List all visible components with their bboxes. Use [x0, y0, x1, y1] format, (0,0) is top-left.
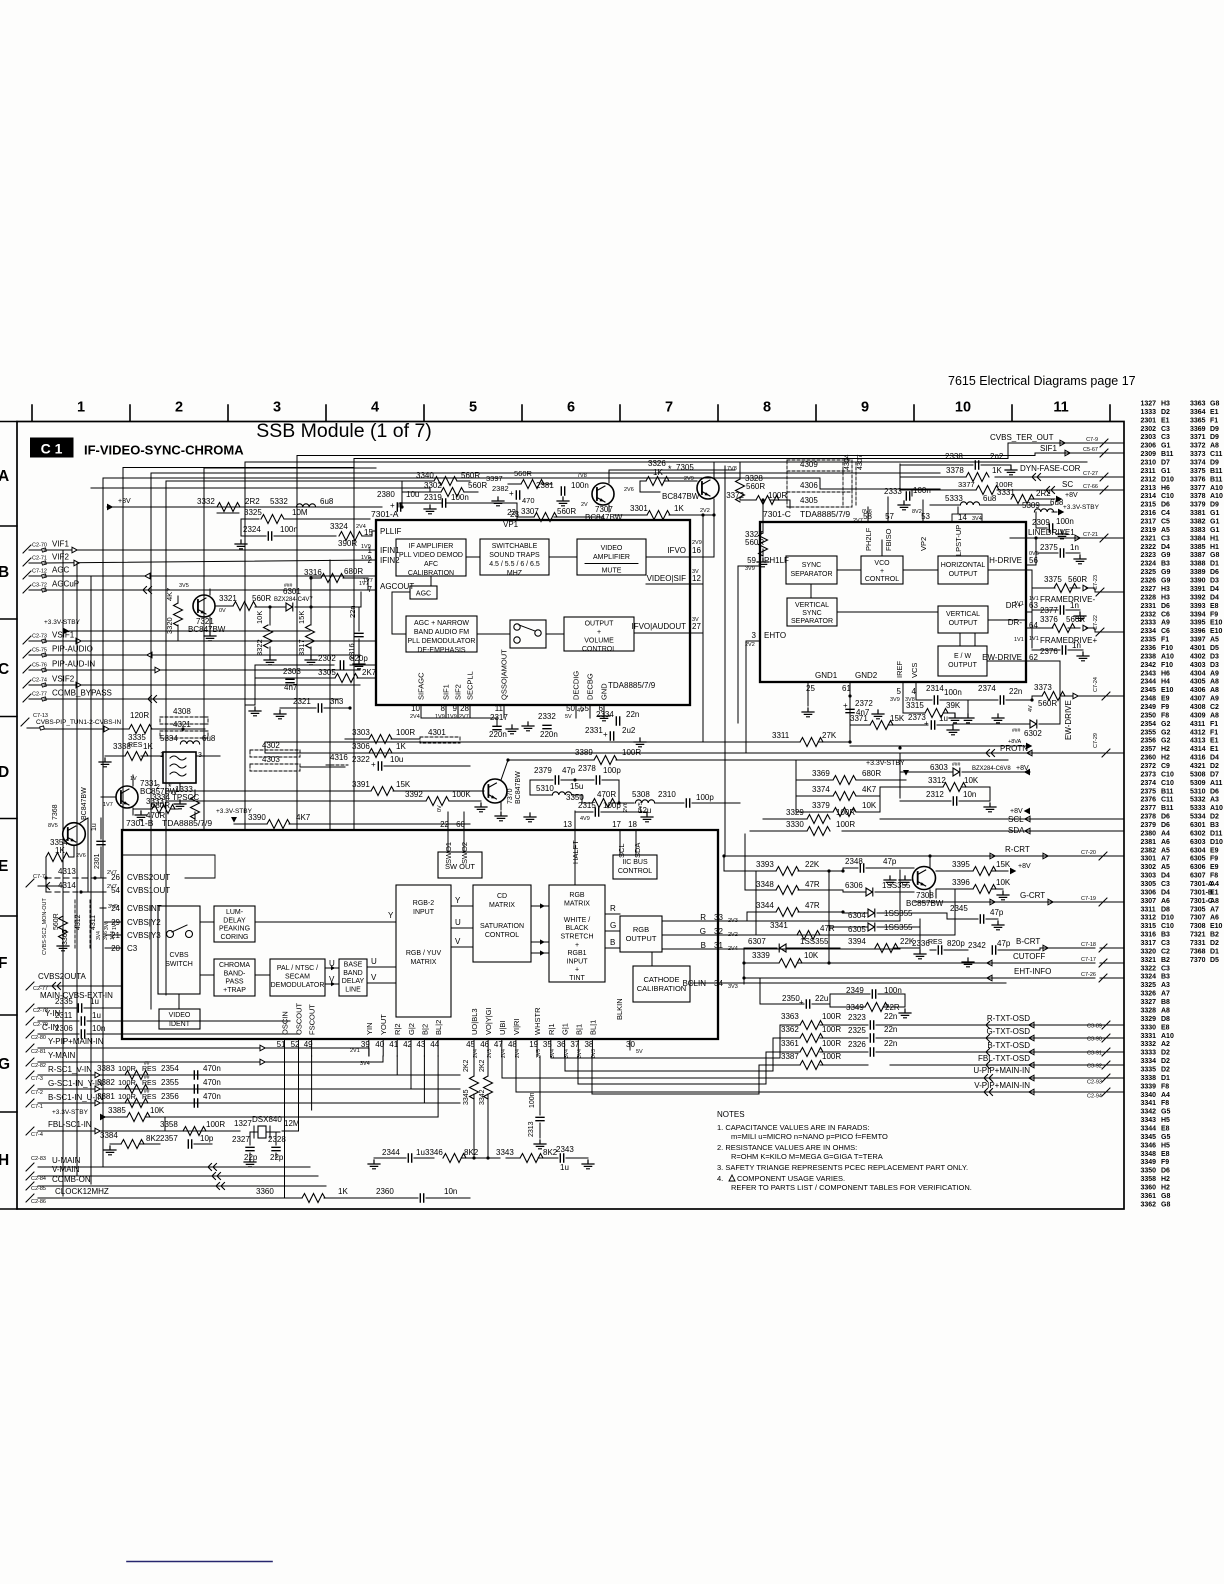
svg-text:m=MILI u=MICRO n=NANO p: m=MILI u=MICRO n=NANO p=PICO f=FEMTO — [731, 1132, 888, 1141]
svg-text:SECAM: SECAM — [285, 974, 310, 981]
svg-text:BC857BW: BC857BW — [906, 899, 944, 908]
capacitor 2372 4n7 — [846, 709, 854, 712]
svg-text:100n: 100n — [1056, 517, 1074, 526]
block output volume control — [564, 617, 634, 651]
svg-text:###: ### — [952, 762, 961, 768]
svg-text:2V6: 2V6 — [76, 853, 86, 859]
svg-text:2V7: 2V7 — [459, 714, 469, 720]
svg-text:2311: 2311 — [55, 1011, 73, 1020]
svg-text:C7-3: C7-3 — [31, 1076, 43, 1082]
svg-text:BLACK: BLACK — [566, 925, 589, 932]
svg-text:C7-7: C7-7 — [33, 874, 45, 880]
svg-text:4312: 4312 — [75, 914, 82, 930]
svg-text:+TRAP: +TRAP — [223, 987, 246, 994]
svg-text:B11: B11 — [1210, 476, 1223, 483]
wire EW-DRIVE pin to bus — [1026, 660, 1060, 662]
svg-text:3393: 3393 — [1190, 603, 1206, 610]
svg-text:3V5: 3V5 — [179, 583, 189, 589]
svg-text:2380: 2380 — [1141, 830, 1157, 837]
svg-text:CHROMA: CHROMA — [219, 962, 250, 969]
bus vertical x245 — [244, 462, 246, 830]
svg-text:C3: C3 — [127, 944, 138, 953]
svg-text:FRAMEDRIVE+: FRAMEDRIVE+ — [1040, 636, 1097, 645]
svg-text:DEMODULATOR: DEMODULATOR — [271, 982, 325, 989]
svg-text:C7-1: C7-1 — [31, 1104, 43, 1110]
svg-text:64: 64 — [1029, 621, 1038, 630]
svg-text:A9: A9 — [1161, 620, 1170, 627]
svg-text:6303: 6303 — [1190, 839, 1206, 846]
svg-text:3V4: 3V4 — [96, 931, 102, 940]
svg-text:DECDIG: DECDIG — [572, 671, 581, 700]
svg-text:54: 54 — [111, 886, 120, 895]
svg-text:B-CRT: B-CRT — [1016, 937, 1040, 946]
transistor 7331 BC857BW — [116, 786, 138, 808]
svg-text:2310: 2310 — [1141, 460, 1157, 467]
wire VSIF2 — [44, 684, 360, 686]
svg-text:1u: 1u — [939, 714, 948, 723]
svg-text:2. RESISTANCE VALUES ARE IN: 2. RESISTANCE VALUES ARE IN OHMS: — [717, 1143, 857, 1152]
svg-text:560R: 560R — [1038, 699, 1057, 708]
svg-text:2314: 2314 — [926, 684, 944, 693]
svg-text:8: 8 — [763, 400, 771, 416]
svg-text:6306: 6306 — [845, 881, 863, 890]
svg-text:COMPONENT USAGE VARIES.: COMPONENT USAGE VARIES. — [737, 1174, 845, 1183]
svg-text:59: 59 — [747, 556, 756, 565]
svg-text:2313: 2313 — [528, 1121, 535, 1137]
svg-text:2319: 2319 — [1141, 527, 1157, 534]
svg-text:D8: D8 — [1161, 906, 1170, 913]
svg-text:C3-72: C3-72 — [32, 583, 47, 589]
svg-text:27K: 27K — [822, 731, 837, 740]
svg-text:100R: 100R — [822, 1052, 841, 1061]
svg-text:CUTOFF: CUTOFF — [1013, 952, 1045, 961]
wire CVBS-PIP to 120R — [44, 728, 122, 730]
svg-text:GND2: GND2 — [855, 671, 878, 680]
svg-text:RGB / YUV: RGB / YUV — [406, 950, 442, 957]
svg-text:560R: 560R — [461, 471, 480, 480]
svg-text:SWITCH: SWITCH — [165, 961, 193, 968]
svg-text:3322: 3322 — [1141, 965, 1157, 972]
svg-text:3385: 3385 — [1190, 544, 1206, 551]
svg-text:3390: 3390 — [1190, 578, 1206, 585]
svg-text:EW-DRIVE: EW-DRIVE — [982, 653, 1022, 662]
svg-text:2: 2 — [175, 400, 183, 416]
svg-text:H6: H6 — [1161, 485, 1170, 492]
svg-text:560R: 560R — [1068, 575, 1087, 584]
svg-text:CONTROL: CONTROL — [618, 868, 652, 875]
svg-text:+: + — [924, 719, 929, 728]
svg-text:AFC: AFC — [424, 561, 438, 568]
svg-text:B|2: B|2 — [420, 1024, 429, 1035]
svg-text:7370: 7370 — [1190, 957, 1206, 964]
svg-text:1V1: 1V1 — [1014, 601, 1024, 607]
svg-text:CVBS|Y2: CVBS|Y2 — [127, 918, 161, 927]
svg-text:A3: A3 — [1161, 982, 1170, 989]
svg-text:3374: 3374 — [812, 785, 830, 794]
svg-text:2377: 2377 — [1141, 805, 1157, 812]
svg-text:10K: 10K — [150, 1106, 165, 1115]
svg-text:3326: 3326 — [648, 459, 666, 468]
wire PIP-AUDIO — [44, 654, 360, 656]
svg-text:16: 16 — [692, 546, 701, 555]
svg-text:C3: C3 — [1161, 434, 1170, 441]
svg-text:F8: F8 — [1161, 1100, 1169, 1107]
svg-text:3388: 3388 — [1190, 561, 1206, 568]
svg-text:IF-VIDEO-SYNC-CHROMA: IF-VIDEO-SYNC-CHROMA — [84, 443, 244, 458]
svg-text:PLL DEMODULATOR: PLL DEMODULATOR — [408, 638, 476, 645]
svg-text:18: 18 — [628, 820, 637, 829]
svg-text:D3: D3 — [1210, 578, 1219, 585]
wire PIP-AUD-IN — [44, 669, 360, 671]
svg-text:2327: 2327 — [232, 1135, 250, 1144]
svg-text:C2-94: C2-94 — [1087, 1094, 1102, 1100]
svg-text:A4: A4 — [1161, 830, 1170, 837]
svg-text:H5: H5 — [1161, 1142, 1170, 1149]
svg-text:3324: 3324 — [330, 522, 348, 531]
svg-text:3333: 3333 — [1141, 1050, 1157, 1057]
svg-text:3V: 3V — [692, 617, 699, 623]
svg-text:LUM-: LUM- — [226, 909, 244, 916]
svg-text:AGCOUT: AGCOUT — [380, 582, 414, 591]
svg-text:SEPARATOR: SEPARATOR — [790, 571, 832, 578]
svg-text:1u: 1u — [416, 1148, 425, 1157]
svg-text:8K2: 8K2 — [146, 1134, 161, 1143]
svg-text:C3-92: C3-92 — [1087, 1064, 1102, 1070]
svg-text:100R: 100R — [118, 1064, 137, 1073]
svg-text:22p: 22p — [270, 1153, 284, 1162]
svg-text:YOUT: YOUT — [379, 1014, 388, 1035]
svg-text:BC847BW: BC847BW — [188, 625, 226, 634]
svg-text:2334: 2334 — [596, 710, 614, 719]
riser x829 — [828, 871, 830, 963]
svg-text:IFIN1: IFIN1 — [380, 546, 400, 555]
svg-text:4311: 4311 — [1190, 721, 1205, 728]
svg-text:MAIN-CVBS-EXT-IN: MAIN-CVBS-EXT-IN — [40, 991, 113, 1000]
svg-text:4311: 4311 — [90, 915, 97, 930]
block CHROMA BAND-PASS +TRAP — [214, 959, 255, 996]
svg-text:2312: 2312 — [1141, 476, 1157, 483]
svg-text:R-TXT-OSD: R-TXT-OSD — [987, 1014, 1030, 1023]
svg-text:3327: 3327 — [1141, 999, 1157, 1006]
svg-text:3381: 3381 — [97, 1092, 115, 1101]
svg-text:G-CRT: G-CRT — [1020, 891, 1045, 900]
resistor pack dashed box — [787, 460, 852, 507]
svg-text:2K2: 2K2 — [463, 1059, 470, 1072]
svg-text:D2: D2 — [1210, 814, 1219, 821]
svg-text:3394: 3394 — [848, 937, 866, 946]
svg-text:3324: 3324 — [1141, 974, 1157, 981]
svg-text:B11: B11 — [1161, 451, 1174, 458]
transistor 7370 BC847BW — [483, 779, 507, 803]
svg-text:E8: E8 — [1210, 603, 1219, 610]
svg-text:RES: RES — [928, 939, 943, 946]
svg-text:BAND-: BAND- — [224, 970, 246, 977]
svg-text:4V: 4V — [1028, 705, 1034, 712]
svg-text:B: B — [610, 938, 615, 947]
svg-text:3371: 3371 — [1190, 434, 1206, 441]
svg-text:+: + — [509, 489, 514, 498]
svg-text:G|2: G|2 — [407, 1023, 416, 1035]
svg-text:3330: 3330 — [1141, 1024, 1157, 1031]
svg-text:DECBG: DECBG — [586, 673, 595, 700]
svg-text:2335: 2335 — [1141, 637, 1157, 644]
svg-text:7331: 7331 — [1190, 940, 1206, 947]
svg-text:3V4: 3V4 — [972, 516, 982, 522]
svg-text:2331: 2331 — [1141, 603, 1157, 610]
svg-text:2350: 2350 — [782, 994, 800, 1003]
svg-text:10M: 10M — [292, 508, 308, 517]
svg-text:SOUND TRAPS: SOUND TRAPS — [489, 552, 540, 559]
svg-text:SIF2: SIF2 — [454, 684, 463, 700]
svg-text:Y-MAIN: Y-MAIN — [48, 1051, 75, 1060]
svg-text:1n: 1n — [1070, 543, 1079, 552]
svg-text:E1: E1 — [1161, 417, 1170, 424]
svg-text:4321: 4321 — [173, 720, 191, 729]
svg-text:IDENT: IDENT — [169, 1021, 191, 1028]
svg-text:VO|Y|GI: VO|Y|GI — [484, 1007, 493, 1035]
svg-text:13: 13 — [563, 820, 572, 829]
svg-text:G2: G2 — [1161, 738, 1170, 745]
svg-text:+: + — [597, 629, 601, 636]
svg-text:2V7: 2V7 — [853, 518, 863, 524]
connector C7-12 AGC — [23, 571, 31, 579]
svg-text:10K: 10K — [804, 951, 819, 960]
svg-text:1V1: 1V1 — [1029, 636, 1039, 642]
svg-text:C2: C2 — [1161, 948, 1170, 955]
svg-text:IFVO: IFVO — [667, 546, 686, 555]
svg-text:100n: 100n — [451, 493, 469, 502]
svg-text:BZX284-C4V7: BZX284-C4V7 — [274, 597, 313, 603]
svg-text:A9: A9 — [1210, 670, 1219, 677]
svg-text:B11: B11 — [1161, 805, 1174, 812]
svg-text:3303: 3303 — [1141, 873, 1157, 880]
svg-text:2R2: 2R2 — [1036, 489, 1051, 498]
svg-text:C2-70: C2-70 — [32, 543, 47, 549]
svg-text:C7-9: C7-9 — [1086, 437, 1098, 443]
svg-text:C2-77: C2-77 — [32, 692, 47, 698]
svg-text:G|1: G|1 — [561, 1023, 570, 1035]
svg-text:3343: 3343 — [1141, 1117, 1157, 1124]
svg-text:SIFAGC: SIFAGC — [417, 672, 426, 700]
svg-text:G1: G1 — [1161, 443, 1170, 450]
left vertical bus 2 — [76, 563, 78, 1175]
svg-text:2306: 2306 — [1141, 443, 1157, 450]
svg-text:VP1: VP1 — [503, 520, 519, 529]
svg-text:C7-66: C7-66 — [1083, 484, 1098, 490]
svg-text:2334: 2334 — [1141, 628, 1157, 635]
left vertical bus 3 — [90, 576, 92, 1184]
svg-text:1V1: 1V1 — [1014, 637, 1024, 643]
svg-text:100R: 100R — [822, 1025, 841, 1034]
sheet label C 1 box — [31, 438, 74, 457]
svg-text:15u: 15u — [570, 782, 583, 791]
svg-text:3363: 3363 — [781, 1012, 799, 1021]
svg-text:3390: 3390 — [248, 813, 266, 822]
svg-text:3377: 3377 — [958, 480, 975, 489]
svg-text:3361: 3361 — [1141, 1193, 1157, 1200]
svg-text:0V: 0V — [437, 805, 443, 812]
svg-text:A5: A5 — [1161, 847, 1170, 854]
svg-text:2376: 2376 — [1040, 647, 1058, 656]
block interconnect wires 7301-C — [837, 569, 861, 571]
svg-text:3360: 3360 — [256, 1187, 274, 1196]
svg-text:D11: D11 — [1210, 830, 1223, 837]
svg-text:D6: D6 — [1161, 814, 1170, 821]
svg-text:2333: 2333 — [884, 487, 902, 496]
svg-text:F9: F9 — [1210, 856, 1218, 863]
svg-text:560R: 560R — [514, 469, 533, 478]
svg-text:STRETCH: STRETCH — [560, 934, 593, 941]
svg-text:CVBS2OUT: CVBS2OUT — [127, 873, 170, 882]
svg-text:3375: 3375 — [1190, 468, 1206, 475]
wire Y to RGB-2 — [255, 921, 396, 923]
svg-text:3346: 3346 — [1141, 1142, 1157, 1149]
block IIC BUS CONTROL — [613, 855, 657, 879]
svg-text:BC847BW: BC847BW — [81, 787, 88, 820]
block RGB matrix white/black stretch — [549, 885, 605, 982]
svg-text:2345: 2345 — [1141, 687, 1157, 694]
svg-text:2342: 2342 — [1141, 662, 1157, 669]
svg-text:2355: 2355 — [1141, 729, 1157, 736]
svg-text:E1: E1 — [1210, 889, 1219, 896]
svg-text:3V6: 3V6 — [104, 921, 110, 930]
svg-text:100K: 100K — [452, 790, 471, 799]
svg-text:CVBS-SC2_MON-OUT: CVBS-SC2_MON-OUT — [42, 898, 48, 955]
svg-text:RGB-2: RGB-2 — [413, 900, 435, 907]
net C7-24 arrow — [1073, 693, 1078, 699]
svg-text:3315: 3315 — [1141, 923, 1157, 930]
svg-text:1n: 1n — [1072, 641, 1081, 650]
svg-text:10n: 10n — [963, 790, 976, 799]
svg-text:QSSO|AMOUT: QSSO|AMOUT — [500, 649, 509, 700]
svg-text:5V: 5V — [636, 1049, 643, 1055]
svg-text:H1: H1 — [1210, 535, 1219, 542]
svg-text:2350: 2350 — [1141, 712, 1157, 719]
svg-text:2331: 2331 — [585, 726, 603, 735]
svg-text:C7-2: C7-2 — [31, 1090, 43, 1096]
svg-text:3393: 3393 — [756, 860, 774, 869]
svg-text:560R: 560R — [746, 482, 765, 491]
svg-text:H2: H2 — [1161, 746, 1170, 753]
pin drop wires to lower rows — [284, 1056, 286, 1198]
svg-text:H4: H4 — [1161, 679, 1170, 686]
svg-text:4321: 4321 — [1190, 763, 1206, 770]
svg-text:3330: 3330 — [786, 820, 804, 829]
svg-text:DELAY: DELAY — [342, 978, 365, 985]
svg-text:3385: 3385 — [108, 1106, 126, 1115]
svg-text:100n: 100n — [913, 486, 931, 495]
transistor 7308 BC857BW — [913, 867, 936, 890]
svg-text:CVBSINT: CVBSINT — [127, 904, 162, 913]
svg-text:F9: F9 — [1210, 611, 1218, 618]
svg-text:F1: F1 — [1210, 417, 1218, 424]
svg-text:100n: 100n — [280, 525, 298, 534]
svg-text:3326: 3326 — [1141, 991, 1157, 998]
svg-text:C2-84: C2-84 — [31, 1176, 46, 1182]
wire AGC — [44, 575, 376, 577]
svg-text:A7: A7 — [1161, 856, 1170, 863]
svg-text:2323: 2323 — [848, 1013, 866, 1022]
svg-text:3345: 3345 — [1141, 1134, 1157, 1141]
svg-text:F10: F10 — [1161, 662, 1173, 669]
fan wires IC pins to TXT risers — [779, 1025, 781, 1058]
svg-text:G9: G9 — [1161, 578, 1170, 585]
svg-text:47p: 47p — [883, 857, 897, 866]
svg-text:D6: D6 — [1161, 822, 1170, 829]
connector C2-74 VSIF2 — [23, 680, 31, 688]
block IF amplifier — [396, 539, 466, 576]
svg-text:7370: 7370 — [507, 788, 514, 804]
svg-text:2326: 2326 — [1141, 578, 1157, 585]
svg-text:B|1: B|1 — [574, 1024, 583, 1035]
svg-text:+3.3V-STBY: +3.3V-STBY — [1063, 504, 1100, 511]
svg-text:470n: 470n — [203, 1064, 221, 1073]
bus vertical x330 — [329, 560, 331, 830]
svg-text:Y: Y — [388, 911, 394, 920]
svg-text:7301-A: 7301-A — [371, 509, 399, 519]
svg-text:REFER TO PARTS LIST / COMPONEN: REFER TO PARTS LIST / COMPONENT TABLES F… — [731, 1183, 972, 1192]
svg-text:5310: 5310 — [536, 784, 554, 793]
svg-text:C10: C10 — [1161, 923, 1174, 930]
transistor 7305 BC847BW — [697, 477, 719, 499]
svg-text:F9: F9 — [1161, 704, 1169, 711]
svg-text:1V7: 1V7 — [363, 578, 373, 584]
svg-text:F9: F9 — [1161, 1159, 1169, 1166]
svg-text:2372: 2372 — [1141, 763, 1157, 770]
svg-text:4307: 4307 — [1190, 696, 1206, 703]
svg-text:LINE: LINE — [345, 986, 361, 993]
svg-text:A4: A4 — [1161, 1092, 1170, 1099]
svg-text:3322: 3322 — [255, 639, 264, 656]
svg-text:680R: 680R — [862, 769, 881, 778]
svg-text:3315: 3315 — [906, 701, 924, 710]
svg-text:D6: D6 — [1161, 603, 1170, 610]
svg-text:VCS: VCS — [910, 663, 919, 678]
svg-text:3381: 3381 — [1190, 510, 1206, 517]
svg-text:2312: 2312 — [926, 790, 944, 799]
svg-text:2309: 2309 — [1032, 518, 1050, 527]
svg-text:2356: 2356 — [1141, 738, 1157, 745]
svg-text:C7-29: C7-29 — [1093, 733, 1099, 748]
svg-text:1n: 1n — [1070, 601, 1079, 610]
wires CVBS2OUT/1OUT to switch — [122, 855, 215, 878]
svg-text:1SS355: 1SS355 — [882, 881, 911, 890]
svg-text:C4: C4 — [1161, 510, 1170, 517]
transistor 7321 BC847BW — [193, 595, 215, 617]
svg-text:2317: 2317 — [1141, 519, 1157, 526]
svg-text:2356: 2356 — [161, 1092, 179, 1101]
svg-text:B3: B3 — [1210, 822, 1219, 829]
block AGC — [410, 586, 437, 599]
svg-text:6301: 6301 — [1190, 822, 1206, 829]
svg-text:3392: 3392 — [1190, 594, 1206, 601]
svg-text:E8: E8 — [1161, 1151, 1170, 1158]
svg-text:3379: 3379 — [812, 801, 830, 810]
svg-text:CATHODE: CATHODE — [643, 975, 679, 984]
svg-text:47R: 47R — [805, 901, 820, 910]
svg-text:3344: 3344 — [1141, 1125, 1157, 1132]
svg-text:15K: 15K — [297, 611, 306, 624]
svg-text:3: 3 — [273, 400, 281, 416]
svg-text:OSCIN: OSCIN — [281, 1011, 290, 1035]
svg-text:B11: B11 — [1161, 788, 1174, 795]
svg-text:H: H — [0, 1152, 9, 1169]
svg-text:3383: 3383 — [1190, 527, 1206, 534]
svg-text:C5: C5 — [1161, 519, 1170, 526]
svg-text:V: V — [371, 973, 377, 982]
svg-text:10: 10 — [955, 400, 971, 416]
svg-text:SWITCHABLE: SWITCHABLE — [492, 543, 538, 550]
